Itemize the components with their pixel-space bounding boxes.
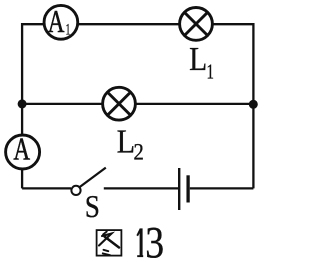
switch S xyxy=(71,168,105,195)
battery: long thin plate xyxy=(178,168,180,210)
label S xyxy=(85,190,100,224)
node: left junction dot xyxy=(18,99,27,108)
lamp L1 xyxy=(180,8,213,41)
svg-text:A: A xyxy=(48,4,65,39)
caption: Chinese character 图 drawn with strokes xyxy=(97,230,122,256)
wire: middle parallel branch xyxy=(22,103,253,105)
wire: bottom-left segment to switch xyxy=(22,187,71,189)
wire: battery to bottom-right corner xyxy=(190,187,254,189)
wire: switch fixed contact to battery xyxy=(104,187,178,189)
svg-text:1: 1 xyxy=(66,20,71,38)
ammeter A xyxy=(6,132,40,169)
label L1 xyxy=(189,40,214,83)
wire: left side, top side, right side of outer loop xyxy=(22,24,253,188)
svg-text:L: L xyxy=(117,122,135,160)
svg-text:A: A xyxy=(13,132,30,167)
svg-text:2: 2 xyxy=(133,140,143,165)
label L2 xyxy=(117,122,144,165)
ammeter A1 xyxy=(44,4,78,39)
node: right junction dot xyxy=(249,100,258,109)
svg-text:L: L xyxy=(189,40,207,77)
svg-text:3: 3 xyxy=(145,218,164,262)
caption: digit 1 of 13 (custom path) xyxy=(136,228,143,257)
battery: short thick plate xyxy=(186,175,189,202)
svg-text:S: S xyxy=(85,190,100,224)
caption: digit 3 of 13 xyxy=(145,218,164,262)
svg-text:1: 1 xyxy=(206,60,213,83)
lamp L2 xyxy=(103,87,136,120)
